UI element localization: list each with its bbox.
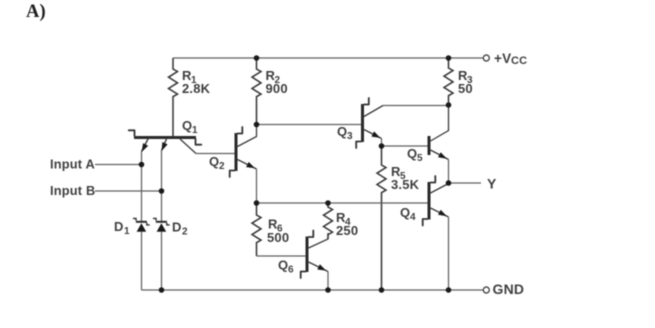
node input A junction <box>139 162 145 168</box>
svg-text:6: 6 <box>288 265 294 276</box>
node +VCC terminal circle <box>483 55 489 61</box>
wire Q2 emitter down to node <box>256 169 258 203</box>
wire node line Q2 emitter to Q4 base <box>257 202 428 204</box>
node Q3 emitter / R5 / Q5 base <box>379 143 385 149</box>
node Q6 emitter gnd <box>325 287 331 293</box>
node Y junction <box>446 180 452 186</box>
transistor Q4 <box>423 176 449 226</box>
svg-text:250: 250 <box>336 223 358 238</box>
wire Q3 emitter to node <box>381 139 383 147</box>
resistor R3 <box>444 58 453 105</box>
wire Y output <box>449 182 482 184</box>
wire node to Q5 base <box>382 145 428 147</box>
node R3 bottom / Q3 collector <box>446 102 452 108</box>
node D2 gnd <box>159 287 165 293</box>
wire R2 node to Q3 base <box>257 124 362 126</box>
node R4 top <box>325 200 331 206</box>
svg-text:1: 1 <box>124 226 130 237</box>
node R3 top <box>446 55 452 61</box>
resistor R4 <box>324 203 333 239</box>
svg-text:Input B: Input B <box>50 183 95 198</box>
wire emitter2 vertical to D2 <box>161 151 163 222</box>
node R2 bottom / Q3 base <box>254 122 260 128</box>
resistor R1 <box>169 58 178 136</box>
diode D2 <box>153 218 170 231</box>
node input B junction <box>159 188 165 194</box>
resistor R6 <box>252 203 261 256</box>
svg-text:3: 3 <box>347 131 353 142</box>
wire D1 to GND rail <box>141 232 143 291</box>
svg-text:+V: +V <box>494 51 511 66</box>
wire GND bottom rail <box>142 289 484 291</box>
svg-text:Q: Q <box>400 205 410 220</box>
transistor Q2 <box>230 125 257 178</box>
transistor Q6 <box>301 231 328 279</box>
svg-text:GND: GND <box>493 281 525 297</box>
node Q4 emitter gnd <box>446 287 452 293</box>
svg-text:Q: Q <box>209 154 219 169</box>
wire Q3 collector to R3 node <box>383 105 449 107</box>
diode D1 <box>133 218 150 231</box>
resistor R2 <box>252 58 261 125</box>
svg-text:Y: Y <box>487 176 497 192</box>
svg-text:900: 900 <box>266 81 288 96</box>
svg-text:Q: Q <box>182 118 192 133</box>
wire input A <box>95 164 142 166</box>
svg-text:D: D <box>172 220 182 235</box>
node Q2 emitter / R6 top <box>254 200 260 206</box>
svg-text:2: 2 <box>182 227 188 238</box>
transistor Q1 (multi-emitter input) <box>129 130 202 153</box>
svg-text:5: 5 <box>417 153 423 164</box>
svg-text:50: 50 <box>458 81 473 96</box>
node R5 gnd <box>379 287 385 293</box>
wire input B <box>95 190 162 192</box>
svg-text:Q: Q <box>337 124 347 139</box>
svg-text:A): A) <box>26 2 46 22</box>
svg-text:Input A: Input A <box>50 157 95 172</box>
svg-text:2.8K: 2.8K <box>182 81 211 96</box>
wire emitter1 vertical to D1 <box>141 152 143 222</box>
svg-text:D: D <box>114 219 124 234</box>
wire VCC top rail <box>173 57 483 59</box>
svg-text:Q: Q <box>278 258 288 273</box>
node R2 top <box>254 55 260 61</box>
node GND terminal circle <box>483 287 489 293</box>
wire Q4 emitter to GND rail <box>448 217 450 290</box>
transistor Q5 <box>429 105 449 160</box>
wire R6 bottom to Q6 base <box>257 255 306 257</box>
wire Q6 emitter to GND rail <box>327 272 329 291</box>
wire Q5 emitter to Y node <box>448 160 450 184</box>
svg-text:500: 500 <box>267 230 289 245</box>
resistor R5 <box>377 146 386 290</box>
svg-text:2: 2 <box>219 161 225 172</box>
svg-text:Q: Q <box>407 146 417 161</box>
wire Q1 collector to Q2 base <box>196 153 235 155</box>
svg-text:4: 4 <box>410 212 416 223</box>
svg-text:1: 1 <box>192 125 198 136</box>
svg-text:CC: CC <box>511 55 527 67</box>
transistor Q3 <box>356 98 383 148</box>
wire D2 to GND rail <box>161 232 163 291</box>
svg-text:3.5K: 3.5K <box>391 177 420 192</box>
